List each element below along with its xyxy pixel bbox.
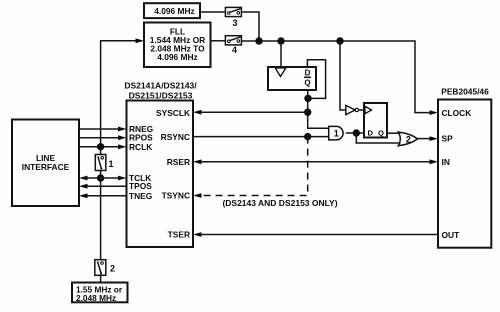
svg-text:SYSCLK: SYSCLK	[156, 108, 190, 118]
svg-text:Q: Q	[378, 128, 384, 137]
wire: TCLK tap down to switch 2	[100, 178, 102, 260]
junction: feedback node	[304, 95, 311, 102]
wire: RSER / IN line (arrows both ends)	[193, 159, 438, 164]
svg-text:RCLK: RCLK	[129, 142, 152, 152]
svg-text:4: 4	[232, 45, 237, 55]
svg-text:DS2151/DS2153: DS2151/DS2153	[129, 90, 193, 100]
wire: TSER line from PEB OUT (arrow into DS2141A)	[193, 232, 438, 237]
FLL box	[144, 23, 211, 68]
svg-text:PEB2045/46: PEB2045/46	[441, 87, 489, 97]
wire: switch 1 to TCLK tap	[100, 171, 102, 179]
svg-text:TNEG: TNEG	[129, 191, 152, 201]
svg-text:4.096 MHz: 4.096 MHz	[154, 6, 195, 16]
wire: RSYNC line to AND gate bottom input	[193, 136, 328, 138]
wire: RCLK tap down to switch 1	[100, 147, 102, 155]
junction: FF1 clock tap	[277, 37, 284, 44]
wire: dashed TSYNC connection (arrow into DS2141A)	[193, 137, 308, 198]
box: LINE INTERFACE	[12, 120, 79, 207]
svg-text:DS2141A/DS2143/: DS2141A/DS2143/	[124, 80, 197, 90]
flip-flop FF1 divide-by-2	[268, 67, 316, 90]
wire: TNEG (arrow into LINE INTERFACE)	[79, 193, 127, 198]
wire: OR output to PEB SP (arrow)	[418, 136, 439, 141]
switch 4	[225, 36, 241, 56]
svg-text:TSYNC: TSYNC	[162, 190, 190, 200]
wire: FF1 output down and into AND gate top input	[308, 90, 329, 128]
svg-text:D: D	[368, 128, 374, 137]
wire: RCLK (arrow into DS)	[79, 144, 127, 149]
box: PEB2045/46 device	[438, 100, 491, 248]
wire: oscillator to switch 3	[200, 11, 225, 13]
svg-text:RSER: RSER	[167, 157, 190, 167]
svg-text:INTERFACE: INTERFACE	[22, 162, 70, 172]
wire: FF1 Qbar feedback to D input	[307, 60, 325, 99]
svg-text:(DS2143 AND DS2153 ONLY): (DS2143 AND DS2153 ONLY)	[222, 198, 337, 208]
switch 1	[95, 155, 113, 171]
oscillator box 1.55 MHz or 2.048 MHz	[72, 283, 128, 304]
wire: clock tap down to FF1	[280, 41, 282, 67]
junction: TSYNC tap on RSYNC line	[304, 133, 311, 140]
wire: SYSCLK line (arrow into DS2141A)	[193, 110, 308, 115]
switch 2	[95, 260, 115, 276]
wire: switch 2 to bottom oscillator	[100, 275, 102, 282]
svg-text:4.096 MHz: 4.096 MHz	[157, 52, 198, 62]
svg-text:2.048 MHz: 2.048 MHz	[76, 293, 116, 303]
svg-text:Q: Q	[304, 79, 310, 88]
svg-text:CLOCK: CLOCK	[442, 108, 472, 118]
junction: inverter tap	[336, 37, 343, 44]
AND gate 1	[329, 126, 343, 139]
svg-text:2: 2	[110, 263, 115, 273]
junction: AND output node	[353, 129, 360, 136]
wire: FF2 Q to OR gate top input	[387, 132, 401, 134]
wire: inverter to FF2 clock	[359, 109, 365, 111]
svg-text:RSYNC: RSYNC	[161, 132, 190, 142]
junction: SYSCLK tap	[304, 109, 311, 116]
junction: switch node	[255, 37, 262, 44]
box: DS2141A device	[127, 101, 194, 248]
wire: RPOS (arrow into DS)	[79, 135, 127, 140]
switch 3	[225, 7, 241, 27]
svg-text:TPOS: TPOS	[129, 181, 152, 191]
wire: AND output to FF2 D input	[346, 132, 364, 134]
svg-text:SP: SP	[442, 134, 454, 144]
svg-text:1: 1	[334, 129, 339, 139]
wire: RNEG (arrow into DS)	[79, 127, 127, 132]
flip-flop FF2	[364, 103, 387, 138]
OR gate 2	[398, 132, 417, 146]
svg-text:D: D	[305, 68, 311, 77]
svg-text:3: 3	[232, 18, 237, 28]
wire: switch 3 to main clock line	[241, 12, 259, 41]
wire: loop-back up to FLL input (with arrow)	[101, 38, 144, 146]
svg-text:OUT: OUT	[442, 230, 461, 240]
svg-text:TSER: TSER	[168, 229, 190, 239]
inverter	[346, 105, 359, 114]
svg-text:1: 1	[108, 159, 113, 169]
wire: main 4.096 MHz clock line to PEB CLOCK	[241, 41, 438, 115]
wire: clock tap down to inverter	[340, 41, 346, 110]
wire: TCLK (arrows both ends)	[79, 176, 127, 181]
svg-text:IN: IN	[442, 157, 450, 167]
oscillator box 4.096 MHz	[144, 3, 200, 18]
label: DS2141A/DS2143/ DS2151/DS2153	[124, 80, 197, 100]
wire: AND output routed to OR gate lower input	[356, 133, 400, 143]
wire: FLL to switch 4	[211, 40, 226, 42]
svg-text:2: 2	[406, 134, 411, 144]
wire: TPOS (arrow into LINE INTERFACE)	[79, 184, 127, 189]
junction: TCLK tap	[97, 174, 104, 181]
junction: RCLK tap	[97, 143, 104, 150]
